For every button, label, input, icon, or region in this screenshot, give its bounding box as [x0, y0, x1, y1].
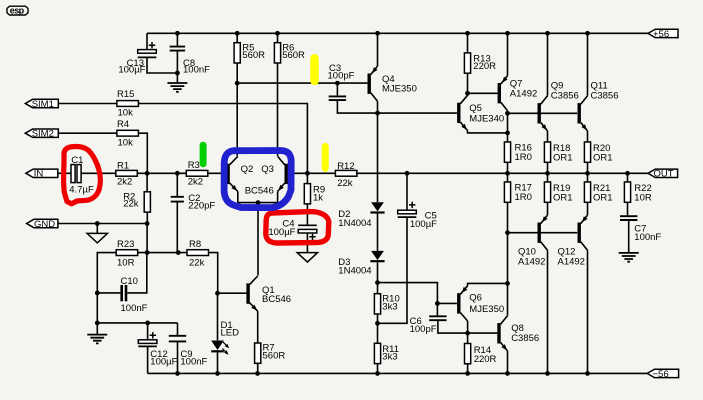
- wire: ground stub under C8: [176, 73, 178, 83]
- wire: R14 to -56 rail: [467, 364, 469, 374]
- annotation: yellow highlight bar near C3: [310, 58, 319, 81]
- svg-text:Q6: Q6: [469, 292, 482, 303]
- svg-text:OR1: OR1: [593, 192, 613, 203]
- wire: R17 body region: [507, 233, 509, 284]
- wire: R4 to input node: [138, 133, 147, 171]
- junction Q1 base / LED: [215, 291, 220, 296]
- power tag -56: [647, 369, 678, 380]
- wire: Q7 emitter from +56 rail: [507, 33, 509, 75]
- ground symbol (signal ground): [87, 233, 107, 243]
- resistor R12 22k: [335, 161, 357, 189]
- diode D2 1N4004: [338, 202, 384, 229]
- wire: R11 to -56 rail: [377, 364, 379, 374]
- wire: C10 left leg: [97, 292, 120, 294]
- resistor R14 220R: [465, 344, 497, 365]
- wire: R13 bottom to node: [467, 73, 469, 93]
- junction bias top node: [375, 280, 380, 285]
- svg-text:LED: LED: [221, 328, 240, 339]
- wire: GND tag line: [58, 223, 147, 225]
- resistor R8 22k: [187, 239, 209, 268]
- wire: C9 bottom to -56 rail: [177, 341, 179, 373]
- capacitor C1 4.7uF: [69, 155, 94, 195]
- svg-text:A1492: A1492: [558, 257, 585, 268]
- LED D1: [211, 320, 239, 355]
- wire: R7 to -56 rail: [257, 363, 259, 373]
- resistor R22 10R: [624, 182, 651, 203]
- wire: Q5 emitter down and right: [468, 131, 508, 133]
- wire: ground stub at GND line: [96, 224, 98, 234]
- svg-text:C3856: C3856: [511, 333, 539, 344]
- wire: C12 bottom to -56 rail: [147, 346, 149, 373]
- wire: R22 to C7: [627, 202, 629, 215]
- svg-text:R23: R23: [117, 239, 134, 250]
- transistor Q8 C3856: [497, 316, 507, 351]
- wire: C6 bottom to Q8 base node: [438, 320, 468, 333]
- svg-text:C1: C1: [71, 155, 83, 166]
- wire: VAS output down to bias chain: [377, 113, 379, 202]
- resistor R17 1R0: [504, 182, 532, 203]
- wire: Q5 collector up: [467, 93, 469, 95]
- transistor Q7 A1492: [498, 76, 508, 111]
- wire: R6 bottom to Q3 collector: [277, 63, 279, 156]
- wire: R10 to mid node: [377, 314, 379, 323]
- wire: R6 top stub: [277, 33, 279, 42]
- junction: input node / C2 node: [145, 171, 180, 176]
- svg-text:560R: 560R: [263, 351, 286, 362]
- wire: spine mid section: [507, 173, 509, 232]
- junction Q6 base node: [435, 301, 440, 306]
- junctions on GND line: [95, 221, 150, 226]
- junction LTP tail: [256, 200, 261, 205]
- wire: +56 rail to C13: [146, 33, 148, 49]
- wire: C8 bottom to ground node: [176, 51, 178, 73]
- svg-text:100nF: 100nF: [634, 232, 661, 243]
- resistor R11 3k3: [374, 343, 399, 363]
- wire: Q1 base line: [218, 292, 247, 294]
- svg-text:esp: esp: [10, 5, 25, 15]
- wire: R8 right leg down to Q1 base line: [209, 253, 218, 294]
- junctions on VAS drive line: [235, 81, 340, 86]
- capacitor C7 100nF: [620, 216, 637, 220]
- svg-text:220pF: 220pF: [188, 200, 215, 211]
- junction ground rail left: [95, 321, 150, 326]
- svg-text:MJE340: MJE340: [469, 113, 504, 124]
- junction output bases bottom: [505, 230, 510, 235]
- svg-text:560R: 560R: [282, 50, 305, 61]
- wire: Q10 collector to -56: [547, 250, 549, 373]
- junction bias mid node: [375, 321, 380, 326]
- svg-text:10k: 10k: [118, 107, 134, 118]
- svg-text:R15: R15: [117, 89, 134, 100]
- wire: R16 top stub: [507, 133, 509, 142]
- wire: Q3 base to node: [288, 172, 335, 174]
- svg-text:10R: 10R: [634, 192, 652, 203]
- capacitor C8 100nF: [170, 47, 185, 51]
- resistor R1 2k2: [116, 161, 138, 188]
- wire: Q9 emitter to R18: [547, 131, 549, 142]
- transistor Q4 MJE350: [368, 66, 378, 101]
- resistor R20 OR1: [584, 142, 612, 163]
- wire: ground stub bottom left: [96, 323, 98, 334]
- junction Q7 base node: [465, 91, 470, 96]
- junction Q5 emitter / spine: [505, 131, 510, 136]
- svg-text:3k3: 3k3: [382, 302, 397, 313]
- wire: Q8 collector up spine: [507, 283, 509, 315]
- wire: LED cathode to -56 rail: [217, 351, 219, 373]
- svg-text:OR1: OR1: [593, 152, 613, 163]
- resistor R21 OR1: [584, 182, 612, 203]
- junction Q3 base node: [305, 171, 310, 176]
- svg-text:10R: 10R: [117, 258, 135, 269]
- input tag SIM2: [25, 129, 58, 140]
- junction C10 left: [95, 291, 100, 296]
- svg-text:MJE350: MJE350: [469, 304, 504, 315]
- svg-text:−56: −56: [653, 369, 669, 380]
- svg-text:100µF: 100µF: [268, 227, 295, 238]
- wire: R3 to Q2 base: [208, 172, 227, 174]
- wire: spine Q7 collector to Q5 emitter: [507, 113, 509, 133]
- wire: R14 top stub: [467, 333, 469, 343]
- capacitor C6 100pF: [429, 316, 446, 320]
- wire: C5 top to output line: [406, 173, 408, 210]
- wire: R20 to output line: [587, 162, 589, 173]
- capacitor C12 100uF: [138, 332, 157, 346]
- wire: mid node to C5 bottom: [378, 217, 408, 323]
- svg-text:SIM2: SIM2: [32, 129, 54, 140]
- wire: C10 right leg up to feedback node: [127, 253, 147, 293]
- svg-text:560R: 560R: [242, 50, 265, 61]
- junction output bases top: [505, 111, 510, 116]
- svg-text:R4: R4: [117, 119, 129, 130]
- wire: R9 to C4: [306, 204, 308, 225]
- svg-text:C10: C10: [121, 276, 138, 287]
- wire: ground bus to C12/C9: [97, 322, 177, 324]
- transistor Q2 BC546: [226, 156, 237, 191]
- junctions on -56 rail: [175, 371, 590, 376]
- wire: output line to R21: [587, 173, 589, 182]
- svg-text:SIM1: SIM1: [32, 99, 54, 110]
- capacitor C9 100nF: [169, 336, 186, 342]
- svg-text:C3856: C3856: [591, 91, 619, 102]
- svg-text:OUT: OUT: [654, 169, 674, 180]
- svg-text:MJE350: MJE350: [382, 84, 417, 95]
- ground symbol under C4: [297, 253, 317, 263]
- wire: R21 to Q12 emitter: [587, 202, 589, 215]
- wire: R16 to output line: [507, 162, 509, 173]
- wire: R13 top stub: [467, 33, 469, 53]
- wire: C2 bottom stub: [176, 202, 178, 253]
- input tag SIM1: [25, 99, 58, 110]
- svg-text:Q3: Q3: [261, 164, 274, 175]
- wire: C1 to R1: [81, 172, 115, 174]
- diode D3 1N4004: [338, 251, 384, 277]
- svg-text:100nF: 100nF: [121, 303, 148, 314]
- resistor R19 OR1: [544, 182, 572, 203]
- resistor R13 220R: [464, 53, 496, 73]
- svg-text:1R0: 1R0: [515, 152, 532, 163]
- annotation: red box around C4: [266, 212, 329, 243]
- wire: Q6 base line: [437, 302, 457, 304]
- junctions on feedback line: [145, 250, 181, 255]
- wire: D3 to bias node: [377, 262, 379, 282]
- resistor R9 1k: [304, 184, 325, 204]
- capacitor C3 100pF: [329, 96, 346, 100]
- svg-text:100pF: 100pF: [410, 324, 437, 335]
- annotation: blue circle around Q2/Q3: [224, 151, 291, 208]
- junctions on +56 rail: [175, 31, 590, 36]
- svg-text:10k: 10k: [118, 137, 134, 148]
- wire: R5 bottom to Q2 collector: [236, 63, 238, 156]
- input tag IN: [26, 169, 58, 180]
- svg-text:BC546: BC546: [245, 185, 274, 196]
- svg-text:IN: IN: [34, 169, 44, 180]
- transistor Q11 C3856: [578, 96, 588, 131]
- svg-text:2k2: 2k2: [188, 177, 203, 188]
- resistor R3 2k2: [186, 160, 208, 188]
- wire: Q6 emitter up and right: [468, 283, 508, 285]
- junction Q8 base node: [465, 331, 470, 336]
- capacitor C13 100uF: [138, 42, 157, 57]
- wire: R2 to GND line: [146, 212, 148, 223]
- svg-text:R1: R1: [117, 161, 129, 172]
- wire: input node to R2: [146, 173, 148, 192]
- wire: Q9 collector to +56: [547, 33, 549, 95]
- wire: +56 supply rail: [147, 32, 648, 34]
- wire: bias top to Q6 base corner: [378, 283, 438, 304]
- wire: Q11 collector to +56: [587, 33, 589, 95]
- wire: C13 bottom to ground node: [147, 57, 177, 73]
- wire: C9 top stub: [177, 323, 179, 335]
- wire: R18 to output line: [547, 162, 549, 173]
- wire: R23 left leg: [97, 253, 116, 323]
- wire: Q8 emitter to -56 rail: [507, 351, 509, 374]
- svg-text:Q2: Q2: [241, 164, 254, 175]
- junction C13/C8 ground node: [175, 71, 180, 76]
- wire: C6 top stub: [436, 303, 438, 315]
- wire: C8 top from +56 rail: [176, 33, 178, 46]
- input tag GND: [27, 219, 58, 230]
- capacitor C4 100uF (reversed): [268, 219, 316, 241]
- svg-text:100nF: 100nF: [183, 65, 210, 76]
- wire: Q1 emitter to R7: [257, 311, 259, 343]
- wire: Q2 emitter down: [237, 192, 239, 203]
- svg-text:220R: 220R: [473, 61, 496, 72]
- svg-text:220R: 220R: [474, 354, 497, 365]
- wire: Q4 collector down: [377, 101, 379, 113]
- wire: R23 to R8: [138, 252, 187, 254]
- wire: R10 top stub: [377, 283, 379, 294]
- resistor R6 560R: [274, 43, 305, 64]
- svg-text:1N4004: 1N4004: [338, 265, 371, 276]
- ground symbol (supply decoupling, top): [167, 83, 187, 92]
- resistor R5 560R: [234, 43, 265, 64]
- ground symbol (bottom left): [87, 335, 107, 344]
- resistor R18 OR1: [544, 142, 572, 163]
- capacitor C5 100uF: [398, 202, 437, 231]
- junctions on output line: [405, 171, 630, 176]
- transistor Q10 A1492: [538, 215, 548, 250]
- wire: output line to R19: [547, 173, 549, 182]
- power tag +56: [648, 29, 678, 40]
- wire: C3 bottom to VAS output: [337, 100, 377, 113]
- svg-text:+56: +56: [653, 29, 669, 40]
- transistor Q6 MJE350: [457, 286, 468, 321]
- wire: node to Q7 base: [468, 92, 498, 94]
- svg-text:1R0: 1R0: [515, 192, 532, 203]
- transistor Q12 A1492: [578, 215, 588, 250]
- resistor R10 3k3: [374, 294, 399, 314]
- transistor Q3 BC546: [278, 156, 288, 191]
- svg-text:C3856: C3856: [551, 91, 579, 102]
- svg-text:A1492: A1492: [510, 89, 537, 100]
- wire: Q7 collector down: [507, 111, 509, 114]
- junction Q6 emitter / spine: [505, 281, 510, 286]
- svg-text:100µF: 100µF: [410, 219, 437, 230]
- wire: output line to R22: [627, 173, 629, 182]
- svg-text:1N4004: 1N4004: [338, 218, 371, 229]
- svg-text:R3: R3: [188, 160, 200, 171]
- junction VAS output: [375, 111, 380, 116]
- svg-text:2k2: 2k2: [117, 177, 132, 188]
- svg-text:R12: R12: [337, 161, 354, 172]
- wire: VAS output to Q5 base: [378, 112, 457, 114]
- svg-text:GND: GND: [34, 219, 55, 230]
- wire: Q8 base line: [468, 332, 498, 334]
- wire: Q2 collector load line to Q4 base: [237, 82, 367, 84]
- ESP logo: [7, 5, 28, 15]
- wire: R1 to R3 through input node: [137, 172, 186, 174]
- svg-text:22k: 22k: [189, 258, 205, 269]
- wire: Q6 collector down: [467, 321, 469, 333]
- resistor R4 10k: [117, 119, 138, 148]
- resistor R23 10R: [116, 239, 138, 268]
- wire: output line: [356, 172, 648, 174]
- svg-text:4.7µF: 4.7µF: [69, 184, 94, 195]
- resistor R2 22k: [123, 191, 150, 212]
- wire: R9 top stub: [306, 173, 308, 183]
- resistor R16 1R0: [504, 142, 532, 163]
- wire: Q12 collector to -56: [587, 250, 589, 373]
- svg-text:OR1: OR1: [553, 192, 573, 203]
- wire: base line to Q9/Q11: [508, 112, 578, 114]
- svg-text:R8: R8: [189, 239, 201, 250]
- svg-text:100pF: 100pF: [328, 71, 355, 82]
- svg-text:BC546: BC546: [262, 294, 291, 305]
- wire: D2 to D3: [377, 214, 379, 251]
- annotation: yellow highlight bar near R12: [322, 146, 329, 168]
- svg-text:22k: 22k: [337, 178, 353, 189]
- wire: base line to Q10/Q12: [508, 232, 578, 234]
- wire: Q4 emitter from +56 rail: [377, 33, 379, 66]
- svg-text:A1492: A1492: [518, 257, 545, 268]
- wire: SIM2 tag to R4: [58, 132, 117, 134]
- wire: GND node down to feedback node: [146, 224, 148, 253]
- svg-text:OR1: OR1: [553, 152, 573, 163]
- transistor Q1 BC546: [246, 276, 257, 311]
- svg-text:100nF: 100nF: [180, 356, 207, 367]
- wire: IN tag to C1: [58, 172, 71, 174]
- wire: SIM1 tag to R15: [58, 103, 117, 105]
- wire: R11 top stub: [377, 323, 379, 343]
- wire: Q11 emitter to R20: [587, 131, 589, 142]
- wire: C4 to ground: [306, 233, 308, 252]
- transistor Q9 C3856: [538, 96, 548, 131]
- wire: R5 top stub: [236, 33, 238, 42]
- wire: R19 to Q10 emitter: [547, 202, 549, 215]
- capacitor C10 100nF: [120, 276, 147, 314]
- wire: C7 to ground: [628, 220, 630, 253]
- wire: C3 top stub: [336, 83, 338, 96]
- transistor Q5 MJE340: [457, 95, 467, 130]
- svg-text:22k: 22k: [123, 199, 139, 210]
- wire: C12 top stub: [147, 323, 149, 340]
- annotation: green highlight bar: [200, 145, 207, 164]
- capacitor C2 220pF: [171, 197, 184, 202]
- wire: tail node to Q1 collector: [257, 203, 259, 276]
- svg-text:100µF: 100µF: [118, 65, 145, 76]
- wire: LTP emitter join line: [238, 202, 278, 204]
- svg-text:1k: 1k: [313, 193, 323, 204]
- svg-text:3k3: 3k3: [382, 352, 397, 363]
- wire: R15 to Q3 base node: [138, 104, 307, 172]
- wire: C2 top stub: [176, 173, 178, 196]
- svg-text:100µF: 100µF: [150, 356, 177, 367]
- resistor R15 10k: [117, 89, 138, 118]
- resistor R7 560R: [255, 343, 286, 364]
- wire: Q3 emitter down: [277, 192, 279, 203]
- annotation: red circle around C1: [64, 147, 101, 204]
- wire: LED anode from base node: [217, 293, 219, 340]
- wire: -56 supply rail: [148, 372, 648, 374]
- ground symbol under C7: [619, 253, 639, 262]
- output tag OUT: [648, 169, 678, 180]
